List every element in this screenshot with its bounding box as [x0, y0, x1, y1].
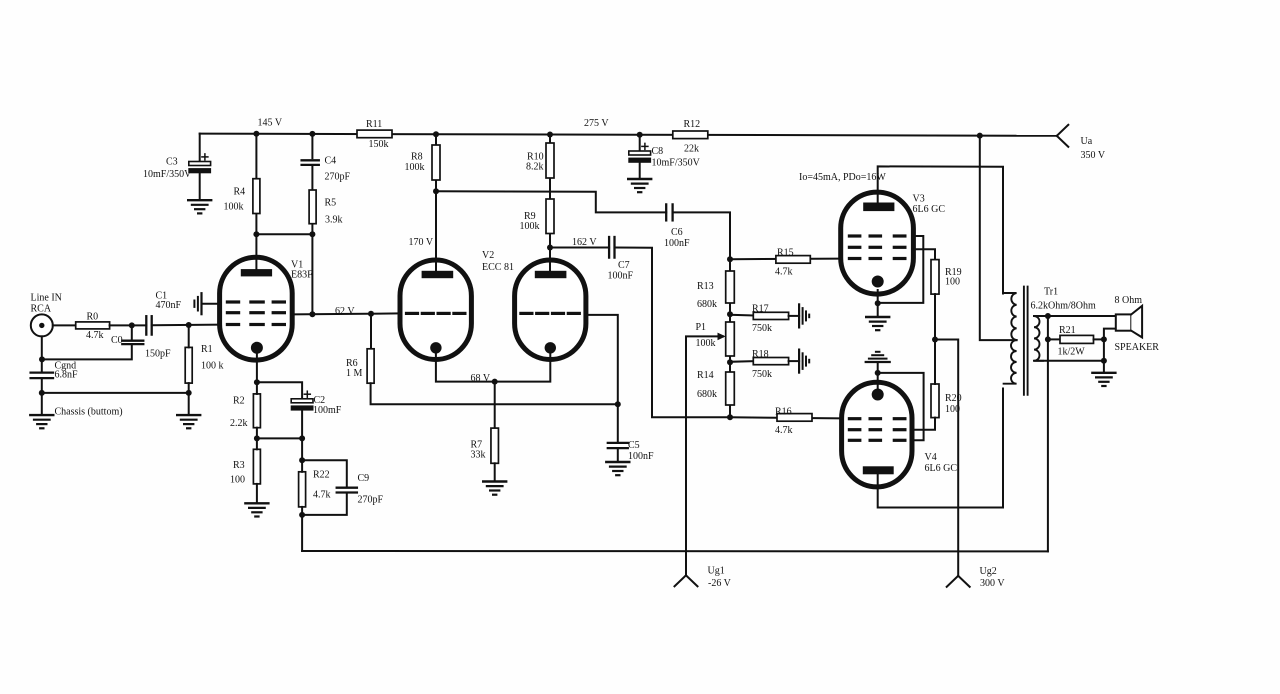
wire C3 to rail: [199, 134, 201, 162]
label Cgnd 6.8nF: [55, 361, 79, 381]
resistor R2: [253, 394, 260, 428]
wire R20 leads: [914, 340, 935, 430]
label C7 100nF: [608, 260, 634, 282]
label R16 4.7k: [775, 407, 793, 437]
svg-text:C8: C8: [652, 146, 664, 157]
svg-text:750k: 750k: [752, 323, 772, 334]
label Ua 350 V: [1081, 136, 1106, 161]
svg-text:10mF/350V: 10mF/350V: [652, 158, 701, 169]
grid dashes V4 row2: [849, 428, 905, 431]
svg-text:100k: 100k: [520, 221, 540, 232]
grid dashes V2a: [407, 312, 465, 315]
label R9 100k: [520, 211, 540, 232]
svg-text:SPEAKER: SPEAKER: [1115, 342, 1160, 353]
svg-text:R16: R16: [775, 407, 792, 418]
grid dashes V1 row2: [227, 311, 284, 314]
wire V4 beam plates to cathode: [878, 373, 924, 440]
label Line IN RCA: [31, 293, 62, 315]
node chassis bus left: [39, 390, 45, 396]
svg-text:R1: R1: [201, 344, 213, 355]
resistor R22: [299, 472, 306, 507]
svg-text:Io=45mA, PDo=16W: Io=45mA, PDo=16W: [799, 172, 886, 183]
wire R19 bottom: [934, 294, 936, 339]
capacitor C4: [302, 160, 319, 165]
svg-text:R15: R15: [777, 248, 794, 259]
wire feedback riser: [301, 515, 303, 551]
label Ug2 300 V: [980, 566, 1006, 589]
label R7 33k: [471, 440, 486, 461]
svg-text:1k/2W: 1k/2W: [1058, 347, 1086, 358]
svg-text:6L6 GC: 6L6 GC: [913, 204, 946, 215]
svg-text:ECC 81: ECC 81: [482, 262, 514, 273]
terminal Ua: [1057, 125, 1069, 147]
vacuum tube V3 6L6GC glass: [841, 192, 914, 294]
svg-text:C4: C4: [325, 156, 337, 167]
resistor R5: [309, 190, 316, 224]
node R2 bottom junction: [254, 435, 260, 441]
svg-text:R12: R12: [684, 119, 701, 130]
wire C9 bottom link: [302, 493, 347, 515]
svg-text:8 Ohm: 8 Ohm: [1115, 295, 1143, 306]
wire R21 right lead: [1094, 338, 1104, 340]
wire R13/P1/R14 chain: [729, 259, 731, 417]
node V1 cathode junction: [254, 379, 260, 385]
capacitor C2: [291, 391, 314, 410]
svg-text:E83F: E83F: [291, 270, 313, 281]
svg-text:4.7k: 4.7k: [313, 490, 331, 501]
label V1 E83F: [291, 260, 313, 281]
label R11 150k: [366, 119, 389, 150]
wire V1 g3 to shield ground: [202, 303, 222, 305]
node R4/R5 plate junction right: [309, 231, 315, 237]
grid dashes V3 row3: [849, 257, 905, 260]
node C7 tap junction: [547, 245, 553, 251]
svg-text:R0: R0: [87, 312, 99, 323]
wire R7 upper lead: [494, 382, 496, 429]
wire R8 branch to V2a anode: [435, 134, 437, 271]
label R3 100: [230, 460, 245, 486]
grid dashes V3 row1: [849, 234, 905, 237]
node V4 grid node junction: [727, 414, 733, 420]
resistor R19: [931, 260, 939, 295]
connector Line IN RCA: [31, 314, 53, 336]
node R6 tap: [368, 311, 374, 317]
wire P1 wiper to Ug1: [686, 336, 723, 575]
wire R7 to ground: [494, 463, 496, 481]
resistor R7: [491, 428, 499, 463]
vacuum tube V1 E83F glass: [220, 257, 293, 360]
svg-text:680k: 680k: [697, 299, 717, 310]
wire feedback takeoff riser: [1047, 316, 1049, 551]
node C8 tap junction: [637, 132, 643, 138]
label R21 1k/2W: [1058, 325, 1086, 358]
label R17 750k: [752, 304, 772, 335]
capacitor C6: [666, 204, 672, 220]
wire 62V node V1 to V2a grid: [292, 313, 400, 314]
ground inverted above V4 cathode: [866, 352, 890, 362]
label R19 100: [945, 267, 962, 288]
label P1 100k: [696, 322, 716, 349]
grid dashes V4 row1: [849, 417, 905, 420]
resistor R10: [546, 143, 554, 178]
svg-text:100k: 100k: [405, 162, 425, 173]
ground rotated at R18: [799, 350, 809, 373]
label C1 470nF: [156, 291, 182, 311]
node R10 tap junction: [547, 132, 553, 138]
ground under V3: [866, 317, 889, 330]
terminal Ug2: [947, 576, 970, 587]
wire RCA sleeve down: [41, 336, 43, 372]
svg-text:8.2k: 8.2k: [526, 162, 544, 173]
node C0 tap: [129, 322, 135, 328]
transformer Tr1 secondary winding: [1034, 316, 1043, 361]
resistor R16: [777, 414, 812, 422]
wire secondary top to speaker: [1034, 315, 1116, 317]
svg-text:100 k: 100 k: [201, 361, 224, 372]
transformer Tr1 core: [1024, 287, 1028, 395]
svg-text:V2: V2: [482, 250, 494, 261]
wire R8 to C6: [436, 191, 666, 212]
resistor R9: [546, 199, 554, 234]
node B+ to transformer center tap junction: [977, 133, 983, 139]
svg-text:Ug2: Ug2: [980, 566, 997, 577]
svg-text:10mF/350V: 10mF/350V: [143, 169, 192, 180]
anode plate bar V4: [863, 466, 894, 474]
svg-text:100nF: 100nF: [664, 238, 690, 249]
label C0 150pF: [111, 335, 171, 360]
svg-text:RCA: RCA: [31, 304, 52, 315]
label 275 V: [584, 118, 609, 129]
svg-text:150k: 150k: [369, 139, 389, 150]
svg-text:4.7k: 4.7k: [775, 267, 793, 278]
label C2 100mF: [313, 395, 342, 416]
svg-text:Line IN: Line IN: [31, 293, 62, 304]
svg-text:750k: 750k: [752, 369, 772, 380]
svg-text:C9: C9: [358, 473, 370, 484]
wire V3 beam plates to cathode: [878, 236, 924, 303]
wire C4/R5 branch upper: [311, 134, 313, 158]
svg-text:100k: 100k: [696, 338, 716, 349]
node R4/R5 plate junction left: [253, 231, 259, 237]
wire C8 to rail: [639, 135, 641, 151]
arrowhead P1 wiper: [718, 333, 726, 341]
wire V3 cathode lead: [877, 290, 879, 317]
node R21 right junction: [1101, 336, 1107, 342]
wire C7 to R16 node: [615, 248, 731, 418]
label 68 V: [471, 373, 491, 384]
capacitor Cgnd: [31, 373, 53, 379]
label C4 270pF: [325, 156, 351, 183]
svg-text:100: 100: [945, 404, 960, 415]
wire C8 to ground: [639, 163, 641, 179]
wire C0 branch: [131, 325, 133, 340]
capacitor C8: [628, 143, 651, 162]
node V4 cathode junction: [875, 370, 881, 376]
label R4 100k: [224, 187, 246, 213]
cathode dot V2a: [430, 342, 441, 353]
node secondary top junction: [1045, 313, 1051, 319]
capacitor C1: [146, 316, 151, 334]
resistor R12: [673, 131, 708, 139]
resistor R17: [753, 312, 788, 319]
anode plate bar V1: [241, 269, 272, 276]
svg-text:4.7k: 4.7k: [86, 330, 104, 341]
resistor R1: [185, 347, 192, 383]
svg-text:100: 100: [945, 277, 960, 288]
resistor R20: [931, 384, 939, 418]
ground under C5: [606, 462, 629, 475]
node C4 tap junction: [309, 131, 315, 137]
terminal Ug1: [675, 575, 698, 586]
svg-text:680k: 680k: [697, 389, 717, 400]
svg-text:1 M: 1 M: [346, 368, 363, 379]
resistor R4: [253, 179, 260, 214]
label R18 750k: [752, 349, 772, 380]
capacitor C3: [188, 154, 211, 173]
resistor R14: [726, 372, 735, 405]
ground under R1: [177, 415, 200, 428]
wire R18 to ground: [789, 360, 800, 362]
wire R21 left lead: [1048, 338, 1060, 340]
svg-text:R3: R3: [233, 460, 245, 471]
wire R18 lead: [730, 360, 753, 363]
resistor R3: [253, 449, 260, 484]
wire R17 to ground: [789, 315, 800, 317]
svg-text:R22: R22: [313, 470, 330, 481]
wire R17 lead: [730, 314, 753, 317]
resistor R15: [776, 256, 810, 264]
wire Cgnd to ground: [41, 378, 43, 414]
svg-text:145 V: 145 V: [258, 118, 283, 129]
label 62 V: [335, 306, 355, 317]
svg-text:Ug1: Ug1: [708, 566, 725, 577]
ground under R3: [245, 503, 268, 516]
wire R22 leads: [301, 460, 303, 515]
wire V1 anode lead: [255, 234, 257, 271]
svg-text:2.2k: 2.2k: [230, 418, 248, 429]
cathode dot V1: [251, 342, 263, 354]
node chassis bus right: [186, 390, 192, 396]
svg-text:6.8nF: 6.8nF: [55, 370, 79, 381]
wire C3 to ground: [199, 173, 201, 199]
resistor R0: [76, 322, 110, 329]
svg-text:470nF: 470nF: [156, 300, 182, 311]
svg-text:R20: R20: [945, 393, 962, 404]
resistor R11: [357, 130, 392, 138]
svg-text:270pF: 270pF: [325, 172, 351, 183]
grid dashes V2b: [521, 312, 579, 315]
label C9 270pF: [358, 473, 384, 506]
svg-text:C0: C0: [111, 335, 123, 346]
label R20 100: [945, 393, 962, 415]
ground under C8: [628, 179, 651, 192]
svg-text:100: 100: [230, 475, 245, 486]
wire R6 upper lead: [370, 314, 372, 349]
node screen supply junction: [932, 337, 938, 343]
label 145 V: [258, 118, 283, 129]
wire R2 leads: [256, 382, 258, 438]
label V2 ECC 81: [482, 250, 514, 273]
svg-text:100k: 100k: [224, 202, 244, 213]
capacitor C9: [337, 488, 357, 493]
svg-text:270pF: 270pF: [358, 495, 384, 506]
svg-text:6.2kOhm/8Ohm: 6.2kOhm/8Ohm: [1031, 301, 1097, 312]
label R2 2.2k: [230, 396, 248, 430]
svg-text:162 V: 162 V: [572, 237, 597, 248]
anode plate bar V3: [863, 203, 894, 212]
svg-text:-26 V: -26 V: [708, 578, 732, 589]
svg-text:300 V: 300 V: [980, 578, 1005, 589]
label 162 V: [572, 237, 597, 248]
vacuum tube V2b ECC81 glass: [515, 260, 586, 360]
label SPEAKER: [1115, 342, 1160, 353]
wire R4 branch: [255, 134, 257, 235]
wire secondary bottom to ground: [1034, 360, 1104, 362]
svg-text:R5: R5: [325, 198, 337, 209]
node secondary bottom junction: [1101, 358, 1107, 364]
label R15 4.7k: [775, 248, 794, 278]
node 145 V junction (R4 tap): [253, 131, 259, 137]
wire feedback bottom rail: [302, 550, 1048, 552]
svg-text:62 V: 62 V: [335, 306, 355, 317]
ground at speaker: [1092, 373, 1115, 386]
ground chassis under RCA: [30, 415, 53, 428]
svg-text:22k: 22k: [684, 144, 699, 155]
grid dashes V1 row3: [227, 323, 284, 326]
potentiometer P1: [726, 322, 735, 356]
vacuum tube V4 6L6GC glass: [842, 382, 912, 487]
cathode dot V2b: [545, 342, 556, 353]
label C8 10mF/350V: [652, 146, 701, 169]
label R22 4.7k: [313, 470, 331, 501]
node R22 top junction: [299, 457, 305, 463]
wire V3 anode to transformer: [878, 166, 1003, 293]
capacitor C0: [122, 341, 143, 344]
wire C2 bottom: [301, 411, 303, 439]
grid dashes V4 row3: [849, 439, 905, 442]
node Cgnd top junction: [39, 356, 45, 362]
wire transformer center tap to B+: [980, 136, 1017, 341]
label Chassis (buttom): [55, 407, 123, 418]
label R10 8.2k: [526, 152, 544, 173]
wire R1 leads: [188, 325, 190, 415]
label R13 680k: [697, 281, 717, 310]
wire speaker return: [1104, 329, 1116, 373]
svg-text:Chassis (buttom): Chassis (buttom): [55, 407, 123, 418]
svg-text:3.9k: 3.9k: [325, 214, 343, 225]
transformer Tr1 primary winding: [1004, 293, 1017, 384]
label R8 100k: [405, 152, 425, 174]
svg-text:R8: R8: [411, 152, 423, 163]
cathode dot V3: [872, 276, 884, 288]
wire R0 to C1: [110, 324, 147, 326]
node R7 tap: [492, 379, 498, 385]
cathode dot V4: [872, 389, 884, 401]
node R8 bottom junction: [433, 188, 439, 194]
anode plate bar V2b: [535, 271, 567, 278]
svg-text:R18: R18: [752, 349, 769, 360]
svg-text:170 V: 170 V: [409, 237, 434, 248]
node R1 tap: [186, 322, 192, 328]
svg-text:R17: R17: [752, 304, 769, 315]
node R17 junction: [727, 311, 733, 317]
svg-text:R21: R21: [1059, 325, 1076, 336]
ground under R7: [483, 482, 506, 495]
svg-text:V4: V4: [925, 452, 937, 463]
label 8 Ohm: [1115, 295, 1143, 306]
label R0 4.7k: [86, 312, 104, 342]
svg-text:350 V: 350 V: [1081, 150, 1106, 161]
label V4 6L6 GC: [925, 452, 958, 474]
svg-text:C3: C3: [166, 157, 178, 168]
wire 68V cathode link: [436, 353, 550, 382]
svg-text:Ua: Ua: [1081, 136, 1093, 147]
svg-text:4.7k: 4.7k: [775, 425, 793, 436]
svg-text:R11: R11: [366, 119, 382, 130]
label Io=45mA, PDo=16W: [799, 172, 886, 183]
wire V4 cathode lead: [877, 362, 879, 390]
node R21 left junction: [1045, 336, 1051, 342]
svg-text:C5: C5: [628, 440, 640, 451]
node C5 junction: [615, 401, 621, 407]
wire V1 cathode lead: [256, 353, 258, 382]
label Ug1 -26 V: [708, 566, 732, 590]
wire C6 to V3 grid node: [673, 212, 730, 259]
grid dashes V3 row2: [849, 246, 905, 249]
node C2 bottom junction: [299, 435, 305, 441]
label C5 100nF: [628, 440, 654, 462]
node feedback rail left junction: [299, 512, 305, 518]
svg-text:Tr1: Tr1: [1044, 287, 1058, 298]
svg-text:R2: R2: [233, 396, 245, 407]
label R1 100 k: [201, 344, 224, 372]
wire C5 upper lead: [617, 404, 619, 442]
svg-text:100mF: 100mF: [313, 405, 342, 416]
label R5 3.9k: [325, 198, 343, 226]
svg-text:275 V: 275 V: [584, 118, 609, 129]
svg-text:P1: P1: [696, 322, 707, 333]
wire R10/R9 branch to V2b anode: [549, 135, 551, 272]
wire V2b anode to C7: [550, 247, 609, 249]
wire C0 to RCA ground: [42, 344, 132, 359]
ground under C3: [188, 200, 211, 213]
wire V1 plate node: [256, 233, 312, 235]
node R18 junction: [727, 359, 733, 365]
wire V4 anode to transformer: [878, 389, 1003, 508]
wire chassis bus: [42, 392, 189, 394]
capacitor C5: [608, 443, 628, 448]
svg-text:100nF: 100nF: [628, 451, 654, 462]
wire C9 top link: [302, 460, 347, 487]
label C6 100nF: [664, 227, 690, 249]
label V3 6L6 GC: [913, 194, 946, 216]
wire C4 to R5 and down to 62V node: [311, 167, 313, 314]
label R6 1 M: [346, 358, 363, 379]
wire C5 to ground: [617, 448, 619, 461]
wire screen node to Ug2: [935, 340, 958, 576]
resistor R21: [1060, 335, 1094, 343]
svg-text:68 V: 68 V: [471, 373, 491, 384]
ground rotated at V1 g3: [194, 293, 201, 314]
wire RCA to R0: [53, 324, 76, 326]
svg-text:R4: R4: [234, 187, 246, 198]
svg-text:R13: R13: [697, 281, 714, 292]
label 170 V: [409, 237, 434, 248]
label Tr1 6.2kOhm/8Ohm: [1031, 287, 1097, 312]
node 62V screen junction: [309, 311, 315, 317]
wire cathode to C2: [257, 382, 302, 399]
anode plate bar V2a: [422, 271, 454, 278]
